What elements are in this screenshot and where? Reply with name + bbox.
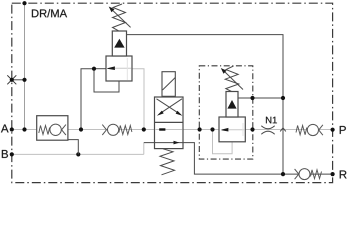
pilot relief valve adjustment arrow <box>221 68 243 90</box>
relief valve main stage body <box>106 56 132 81</box>
node: drain riser / stub junction <box>22 78 26 82</box>
node: line A enclosure left crossing <box>198 127 202 131</box>
enclosure border (dash-dot frame) <box>12 3 333 182</box>
pilot relief valve spring <box>225 66 239 92</box>
check valve CV2 seat <box>102 125 106 135</box>
node: port P <box>331 128 335 132</box>
wire: plugged measuring port stub <box>12 79 25 81</box>
wire: drain line from top border to line A <box>24 3 26 129</box>
node: port R <box>331 172 335 176</box>
directional valve body <box>155 97 184 149</box>
check valve CV1 seat <box>62 125 66 135</box>
label port P <box>340 126 346 134</box>
check valve CV3 (port P) spring <box>296 126 307 135</box>
wire: pilot line from main relief valve top to drain riser <box>127 35 284 98</box>
pilot relief valve flow arrow <box>221 123 244 136</box>
node: line B / CV1 drain junction <box>76 152 80 156</box>
wire: pilot valve vent line <box>238 97 283 99</box>
label N1 <box>266 117 277 124</box>
node: vent line / drain riser junction <box>281 96 285 100</box>
wire: main valve pilot into square <box>94 68 107 70</box>
node: plugged port M (dot with cross) <box>7 75 16 84</box>
wire: CV1 drain to line B <box>68 140 78 155</box>
pilot relief valve enclosure (dash-dot) <box>199 66 253 159</box>
node: line A enclosure right crossing <box>250 127 254 131</box>
orifice N1 <box>261 126 274 135</box>
label port R <box>340 170 347 178</box>
check valve CV4 spring <box>311 170 322 179</box>
node: line A / main valve drain junction <box>142 127 146 131</box>
wire: main valve bottom port loop <box>94 69 119 92</box>
pilot relief valve poppet section <box>226 92 238 118</box>
node: line A / pilot drain loop junction <box>210 127 214 131</box>
node: line A / pilot tap junction <box>79 127 83 131</box>
node: drain port on top border <box>22 1 26 5</box>
wire: line B riser <box>143 143 145 155</box>
node: vent line enclosure crossing <box>250 96 254 100</box>
pilot relief valve body <box>219 117 245 142</box>
relief valve main stage poppet triangle <box>114 39 124 48</box>
check valve CV4 (port R) seat <box>295 169 299 179</box>
node: port A <box>10 127 14 131</box>
check valve CV2 ball <box>108 124 119 135</box>
node: drain riser / R line junction <box>281 172 285 176</box>
pilot flow arrowhead on drain riser <box>280 128 286 132</box>
check valve CV1 spring <box>39 126 50 135</box>
directional valve return spring <box>160 149 175 175</box>
pilot relief valve poppet triangle <box>227 100 236 109</box>
wire: drain riser x=283 down to R line <box>282 98 284 174</box>
wire: pilot valve spring-chamber drain loop <box>213 130 233 154</box>
check valve CV2 spring <box>119 126 132 135</box>
relief valve main stage spring <box>113 4 126 31</box>
node: port B <box>10 152 14 156</box>
relief valve main stage poppet section <box>112 31 126 56</box>
wire: B path through valve to R line <box>144 143 333 175</box>
wire: line A from port A to port P <box>12 129 333 131</box>
directional valve solenoid <box>162 72 175 97</box>
check valve CV3 seat <box>319 125 323 135</box>
relief valve main stage flow arrow <box>107 58 131 80</box>
node: main valve pilot junction <box>92 67 96 71</box>
relief valve main stage adjustment arrow <box>109 7 131 28</box>
wire: line A through valve bottom box <box>156 129 183 131</box>
node: line A / drain riser junction <box>22 127 26 131</box>
check valve CV3 ball <box>307 124 318 135</box>
label port A <box>1 124 9 132</box>
wire: line B horizontal from port B <box>12 153 144 155</box>
directional valve crossed arrows <box>157 99 183 116</box>
check valve CV4 ball <box>299 169 310 180</box>
check valve CV1 box <box>37 116 68 141</box>
directional valve through-flow line (B path) <box>155 141 184 145</box>
label port B <box>2 150 8 158</box>
wire: main valve drain to line A <box>132 69 144 130</box>
directional valve blocked port arrow <box>159 128 165 130</box>
wire: main valve pilot tap left <box>81 69 94 130</box>
check valve CV1 ball <box>50 124 61 135</box>
label DR/MA <box>32 9 67 17</box>
